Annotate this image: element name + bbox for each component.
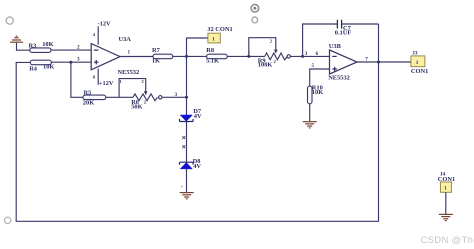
wire R9 to U3B pin6 bbox=[290, 55, 329, 57]
junction R6/D7 node bbox=[185, 96, 188, 99]
ground below J4 bbox=[439, 214, 453, 220]
wire R7 to R8 bbox=[173, 55, 207, 57]
wire U3A power stem top bbox=[97, 26, 99, 44]
diode D7 (zener) bbox=[180, 108, 202, 122]
svg-text:3: 3 bbox=[305, 51, 308, 57]
wire R4 to U3A pin3 bbox=[51, 61, 91, 63]
wire U3B output to J3 bbox=[357, 61, 411, 63]
svg-text:100K: 100K bbox=[258, 62, 273, 69]
connector J3 bbox=[411, 51, 428, 76]
connector J4 bbox=[438, 171, 455, 192]
wire feedback loop (R4 left, down, bottom, up right side) bbox=[16, 24, 378, 221]
resistor R5 bbox=[83, 89, 106, 106]
svg-text:6: 6 bbox=[316, 51, 319, 57]
svg-text:2: 2 bbox=[77, 45, 80, 51]
wiper arrow bbox=[274, 50, 278, 54]
svg-text:3: 3 bbox=[175, 92, 178, 98]
no-ERC mark x2 bbox=[182, 145, 185, 148]
wire R5 to R6 bbox=[106, 96, 133, 98]
svg-text:R5: R5 bbox=[84, 89, 92, 96]
wire R9 wiper loop bbox=[249, 38, 276, 57]
connector body bbox=[440, 182, 451, 192]
resistor R4 bbox=[29, 60, 54, 72]
connector body bbox=[411, 56, 425, 67]
svg-text:50K: 50K bbox=[131, 103, 142, 110]
pin 3 end bbox=[287, 55, 290, 58]
connector body bbox=[208, 33, 220, 43]
svg-text:J2 CON1: J2 CON1 bbox=[207, 26, 232, 33]
no-ERC mark x1 bbox=[182, 136, 185, 139]
non-inverting input mark bbox=[332, 67, 337, 71]
svg-text:1: 1 bbox=[444, 186, 447, 192]
resistor R8 bbox=[206, 47, 227, 64]
connector J2 bbox=[207, 26, 232, 43]
potentiometer R9 bbox=[248, 38, 290, 69]
svg-text:4V: 4V bbox=[193, 163, 201, 170]
op-amp U3A bbox=[91, 36, 139, 76]
ground GND1 (top-left, flipped up) bbox=[10, 36, 23, 42]
zener cathode bar bbox=[180, 119, 194, 122]
svg-text:R4: R4 bbox=[29, 65, 38, 72]
resistor R7 bbox=[152, 47, 173, 64]
non-inverting input mark bbox=[94, 60, 99, 64]
ground below R10 bbox=[303, 122, 317, 128]
svg-text:3: 3 bbox=[77, 56, 80, 62]
wire U3A power stem bottom bbox=[97, 69, 99, 85]
svg-text:20K: 20K bbox=[83, 100, 94, 107]
svg-text:10K: 10K bbox=[42, 41, 53, 48]
op-amp U3B bbox=[328, 43, 357, 82]
svg-text:1: 1 bbox=[128, 50, 131, 56]
capacitor C7 bbox=[335, 20, 352, 37]
wire stub to J2 bbox=[187, 38, 208, 56]
svg-text:4V: 4V bbox=[194, 113, 202, 120]
resistor R10 bbox=[308, 85, 324, 104]
junction feedback/output bbox=[377, 61, 380, 64]
wire J4 to ground bbox=[445, 192, 447, 214]
wire R10 to ground bbox=[309, 104, 311, 122]
junction C7 stub bbox=[301, 55, 304, 58]
svg-text:1: 1 bbox=[212, 37, 215, 43]
svg-text:U3A: U3A bbox=[119, 36, 132, 43]
wire R3 to U3A pin2 bbox=[51, 49, 91, 51]
decor circle pair top-middle bbox=[251, 4, 259, 22]
svg-text:CSDN @The: CSDN @The bbox=[421, 235, 474, 246]
wire U3A output to R7 bbox=[119, 56, 153, 58]
svg-text:+12V: +12V bbox=[99, 80, 114, 87]
wire R6 to D7 node bbox=[162, 96, 187, 98]
wire D8 to ground bbox=[186, 169, 188, 193]
svg-text:NE5532: NE5532 bbox=[118, 69, 140, 76]
svg-text:R3: R3 bbox=[29, 43, 37, 50]
svg-text:CON1: CON1 bbox=[411, 68, 428, 75]
junction R9 loop bbox=[247, 55, 250, 58]
decor circle top-left bbox=[6, 17, 13, 24]
svg-text:U3B: U3B bbox=[329, 43, 342, 50]
wire ground1 stem to R3 bbox=[17, 43, 30, 50]
svg-text:5: 5 bbox=[312, 63, 315, 69]
svg-text:10K: 10K bbox=[43, 64, 54, 71]
resistor R3 bbox=[29, 41, 54, 53]
potentiometer R6 bbox=[119, 79, 162, 111]
pin 3 end bbox=[159, 96, 162, 99]
svg-text:R7: R7 bbox=[152, 47, 161, 54]
svg-text:10K: 10K bbox=[312, 89, 323, 96]
wire D7 to D8 bbox=[186, 122, 188, 163]
wire D7 node down to D7 bbox=[186, 56, 188, 115]
junction main/D7 bbox=[185, 55, 188, 58]
inverting input mark bbox=[332, 55, 337, 57]
wire R8 to R9 bbox=[227, 55, 264, 57]
svg-text:5.1K: 5.1K bbox=[206, 58, 219, 65]
svg-text:-12V: -12V bbox=[98, 20, 112, 27]
svg-text:<: < bbox=[181, 184, 184, 189]
wire pin3 node down to R5 bbox=[71, 62, 83, 97]
svg-text:R8: R8 bbox=[206, 47, 214, 54]
wiper arrow bbox=[144, 91, 148, 95]
svg-text:7: 7 bbox=[365, 56, 368, 62]
junction pin3 node bbox=[69, 61, 72, 64]
wire R6 wiper loop bbox=[119, 79, 146, 98]
wire C7 stub and top wire bbox=[303, 24, 379, 56]
decor circle bottom-left bbox=[4, 217, 10, 223]
diode D8 (zener) bbox=[180, 158, 202, 170]
svg-text:0.1UF: 0.1UF bbox=[335, 29, 352, 36]
svg-text:NE5532: NE5532 bbox=[328, 75, 350, 82]
svg-text:1: 1 bbox=[416, 60, 419, 66]
ground below D8 bbox=[180, 193, 194, 199]
wire U3B pin5 stub to R10 bbox=[310, 69, 330, 86]
inverting input mark bbox=[94, 49, 99, 51]
svg-text:1K: 1K bbox=[152, 58, 160, 65]
zener cathode bar bbox=[180, 162, 194, 165]
